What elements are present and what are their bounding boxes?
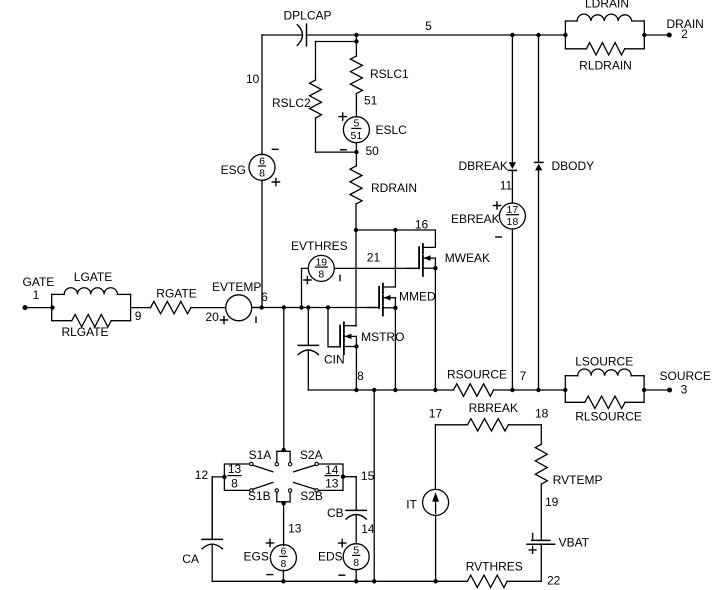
switch S1B outer contact	[250, 489, 253, 492]
wire node 6 horizontal	[252, 307, 379, 309]
source ESG minus	[272, 148, 278, 150]
svg-text:1: 1	[33, 288, 40, 302]
wire RSLC2 top vertical	[315, 42, 317, 81]
resistor RLDRAIN bottom edge segments	[565, 48, 586, 50]
svg-text:S2B: S2B	[300, 489, 323, 503]
wire node 18 vertical	[540, 425, 542, 445]
transistor MMED gate lead	[368, 307, 380, 309]
switch S2A inner contact	[288, 463, 291, 466]
svg-text:RDRAIN: RDRAIN	[371, 181, 417, 195]
svg-text:18: 18	[507, 216, 519, 228]
svg-text:7: 7	[520, 369, 527, 383]
source EGS plus	[266, 539, 273, 546]
source EDS minus	[339, 574, 345, 576]
wire node 50 horizontal	[316, 151, 357, 153]
switch top bracket	[277, 451, 290, 462]
wire node 15 from right switch box	[343, 477, 356, 511]
inductor LSOURCE top edge segments	[565, 375, 577, 377]
svg-text:MMED: MMED	[399, 290, 436, 304]
junction node 7 / DBODY	[536, 388, 540, 392]
wire VBAT to node 22	[540, 544, 542, 581]
source EGS minus	[267, 574, 273, 576]
junction node 6 / EVTHRES	[299, 305, 303, 309]
svg-text:11: 11	[500, 179, 513, 193]
transistor MWEAK gate lead	[406, 267, 419, 269]
svg-text:MWEAK: MWEAK	[445, 251, 490, 265]
switch S1A blade	[253, 465, 273, 472]
wire node 16 horizontal	[356, 229, 435, 231]
current source IT circle	[423, 489, 449, 515]
inductor LSOURCE coils	[578, 369, 632, 376]
wire node 13 vertical to EGS	[283, 502, 285, 545]
transistor MMED source lead	[394, 298, 396, 390]
junction LGATE left	[50, 305, 54, 309]
wire node 14 CB to EDS	[355, 515, 357, 544]
source EVTEMP circle	[226, 295, 252, 321]
wire node 8 horizontal left	[308, 389, 453, 391]
svg-text:2: 2	[681, 27, 688, 41]
wire node 21 to MWEAK gate	[334, 267, 419, 269]
svg-text:GATE: GATE	[23, 275, 55, 289]
wire ESLC to node 50	[355, 143, 357, 152]
junction node 5 / DBREAK branch	[510, 33, 514, 37]
source EGS circle	[270, 545, 296, 571]
svg-text:13: 13	[325, 477, 339, 491]
svg-text:10: 10	[246, 72, 260, 86]
transistor MWEAK drain lead	[423, 230, 436, 247]
svg-text:EBREAK: EBREAK	[451, 212, 500, 226]
source EVTHRES circle	[308, 255, 334, 281]
inductor LDRAIN top edge segments	[565, 20, 577, 22]
svg-text:RSLC2: RSLC2	[272, 96, 311, 110]
wire to DRAIN terminal	[644, 34, 669, 36]
junction LSOURCE right	[642, 388, 646, 392]
battery VBAT plus	[529, 547, 536, 554]
svg-text:LGATE: LGATE	[74, 270, 112, 284]
junction node 6 / switch column	[282, 305, 286, 309]
junction node 7 / EBREAK	[510, 388, 514, 392]
source EVTHRES left lead	[302, 268, 308, 307]
terminal GATE pin 1	[23, 305, 28, 310]
capacitor CIN	[298, 344, 318, 346]
svg-text:LSOURCE: LSOURCE	[575, 354, 633, 368]
transistor MWEAK bulk arrow	[423, 257, 436, 259]
source EVTEMP plus	[220, 316, 227, 323]
resistor RLGATE	[72, 315, 111, 327]
junction node 6 / MSTRO gate	[326, 305, 330, 309]
wire RSLC2 bottom vertical	[315, 118, 317, 152]
wire node 17 horizontal	[435, 424, 467, 426]
inductor LGATE box right edge	[130, 294, 132, 320]
switch S1A outer contact	[250, 462, 253, 465]
wire bottom rail right	[507, 580, 541, 582]
svg-text:RGATE: RGATE	[156, 286, 196, 300]
wire IT bottom lead	[435, 516, 437, 582]
svg-text:EVTHRES: EVTHRES	[291, 239, 348, 253]
source EDS plus	[339, 540, 346, 547]
source EVTEMP rotated minus	[255, 317, 257, 322]
wire to SOURCE terminal	[644, 389, 670, 391]
resistor RSOURCE	[454, 384, 494, 396]
junction RSLC2 top	[354, 39, 358, 43]
inductor LDRAIN coils	[577, 14, 632, 21]
transistor MWEAK source contact	[423, 267, 436, 269]
junction LSOURCE left	[563, 388, 567, 392]
resistor RBREAK	[468, 419, 509, 431]
svg-text:DBODY: DBODY	[552, 159, 595, 173]
wire switch column upper	[283, 308, 285, 452]
resistor RGATE	[151, 301, 191, 313]
resistor RVTEMP	[535, 444, 547, 484]
svg-text:5: 5	[425, 19, 432, 33]
wire node 17 vertical	[434, 425, 436, 489]
wire node 51	[355, 94, 357, 117]
junction IT / bottom rail	[433, 579, 437, 583]
wire node 8 column vertical	[373, 390, 375, 581]
junction node 16 / MSTRO drain	[354, 228, 358, 232]
svg-text:RBREAK: RBREAK	[469, 401, 518, 415]
svg-text:50: 50	[366, 144, 380, 158]
svg-text:SOURCE: SOURCE	[660, 369, 711, 383]
junction node 5 / DBODY branch	[536, 33, 540, 37]
terminal SOURCE pin 3	[667, 388, 672, 393]
capacitor DPLCAP	[297, 25, 302, 46]
svg-text:13: 13	[288, 521, 302, 535]
svg-text:14: 14	[325, 463, 339, 477]
wire node 11	[511, 170, 513, 203]
svg-text:12: 12	[195, 468, 209, 482]
inductor LSOURCE box left edge	[564, 376, 566, 403]
svg-text:EDS: EDS	[318, 550, 343, 564]
transistor MWEAK gate bar	[418, 247, 420, 268]
transistor MSTRO channel segments	[343, 322, 345, 332]
junction node 8 / MSTRO source	[354, 388, 358, 392]
junction source of MWEAK	[433, 266, 437, 270]
svg-text:CA: CA	[182, 552, 199, 566]
junction EGS / bottom rail	[281, 579, 285, 583]
wire EVTEMP to node 6	[252, 307, 262, 309]
junction node 6 / CIN	[306, 305, 310, 309]
svg-text:S2A: S2A	[300, 448, 323, 462]
inductor LGATE coils	[64, 288, 117, 295]
svg-text:16: 16	[415, 218, 429, 232]
switch S2B blade	[294, 483, 316, 490]
switch S1A inner contact	[275, 463, 278, 466]
transistor MMED channel segments	[382, 284, 384, 294]
switch S1B inner contact	[275, 489, 278, 492]
resistor RLGATE bottom edge segments	[52, 320, 72, 322]
svg-text:DPLCAP: DPLCAP	[283, 9, 331, 23]
wire node 5 horizontal	[307, 34, 566, 36]
svg-text:8: 8	[259, 168, 265, 180]
transistor MSTRO gate lead	[328, 308, 340, 347]
wire node 20	[191, 307, 226, 309]
inductor LDRAIN box right edge	[643, 21, 645, 49]
svg-text:51: 51	[351, 130, 363, 142]
transistor MMED bulk arrow	[383, 297, 396, 299]
junction switch bottom bracket	[281, 501, 285, 505]
svg-text:CIN: CIN	[324, 353, 345, 367]
junction EDS / bottom rail	[354, 579, 358, 583]
capacitor CA bottom lead	[211, 544, 213, 581]
junction right switch box	[341, 475, 345, 479]
resistor RSLC1	[350, 56, 362, 94]
svg-text:CB: CB	[327, 506, 344, 520]
svg-text:IT: IT	[406, 497, 417, 511]
source EBREAK plus	[493, 202, 500, 209]
switch S2A blade	[294, 465, 316, 472]
wire node 5 to DBODY	[538, 35, 540, 162]
transistor MSTRO source lead	[355, 336, 357, 390]
resistor RDRAIN	[350, 166, 362, 204]
transistor MWEAK source lead	[434, 258, 436, 390]
svg-text:EGS: EGS	[244, 550, 269, 564]
source ESG circle	[249, 154, 275, 180]
resistor RLSOURCE bottom edge segments	[565, 401, 585, 403]
svg-text:ESG: ESG	[221, 163, 246, 177]
wire node 10 vertical to ESG	[261, 35, 263, 155]
switch S2A outer contact	[315, 462, 318, 465]
svg-text:14: 14	[361, 522, 375, 536]
junction ESG / node 6	[260, 305, 264, 309]
diode DBODY	[535, 161, 543, 163]
wire node 19	[540, 484, 542, 540]
source EDS circle	[343, 544, 369, 570]
transistor MMED drain lead	[383, 230, 396, 287]
wire bottom rail left	[212, 580, 467, 582]
junction LDRAIN left	[563, 33, 567, 37]
junction node 8 / bottom column	[372, 388, 376, 392]
wire DBODY to node 7	[538, 170, 540, 390]
svg-text:RLDRAIN: RLDRAIN	[579, 59, 632, 73]
diode DBREAK	[509, 162, 516, 169]
wire RSLC branch stub	[355, 35, 357, 56]
junction LDRAIN right	[642, 33, 646, 37]
wire node 18 horizontal	[508, 424, 541, 426]
svg-text:8: 8	[318, 269, 324, 281]
source ESG plus	[272, 178, 279, 185]
junction switch top bracket	[281, 448, 285, 452]
switch left bracket	[224, 464, 249, 490]
svg-text:8: 8	[353, 557, 359, 569]
source ESLC circle	[343, 117, 369, 143]
junction node 8 / MWEAK source	[433, 388, 437, 392]
wire node 12 rail	[212, 477, 224, 540]
transistor MMED source contact	[383, 307, 396, 309]
svg-text:S1B: S1B	[248, 489, 271, 503]
wire RSLC2 top horizontal	[316, 41, 357, 43]
svg-text:8: 8	[231, 477, 238, 491]
capacitor CA	[202, 538, 222, 540]
source EVTHRES rotated minus	[339, 275, 341, 280]
terminal DRAIN pin 2	[667, 33, 672, 38]
svg-text:ESLC: ESLC	[376, 123, 408, 137]
capacitor CB	[346, 509, 366, 511]
svg-text:DBREAK: DBREAK	[459, 159, 508, 173]
wire EGS bottom lead	[282, 570, 284, 581]
op-amp source ESLC plus	[339, 113, 346, 120]
svg-text:17: 17	[429, 406, 443, 420]
capacitor CA top lead	[211, 477, 213, 540]
source ESLC minus	[341, 149, 347, 151]
svg-text:9: 9	[135, 309, 142, 323]
svg-text:S1A: S1A	[249, 448, 272, 462]
transistor MSTRO drain lead	[344, 325, 357, 327]
switch S2B inner contact	[288, 489, 291, 492]
svg-text:RSOURCE: RSOURCE	[447, 368, 507, 382]
svg-text:RLSOURCE: RLSOURCE	[575, 410, 642, 424]
wire node 7 horizontal	[494, 389, 566, 391]
switch bottom bracket	[277, 492, 290, 502]
svg-text:21: 21	[367, 251, 381, 265]
source EBREAK minus	[496, 236, 502, 238]
junction node 8 column / bottom rail	[372, 579, 376, 583]
svg-text:51: 51	[364, 94, 378, 108]
resistor RLSOURCE	[585, 396, 625, 408]
transistor MMED gate bar	[378, 287, 380, 308]
junction source of MMED	[393, 306, 397, 310]
source EBREAK circle	[499, 203, 525, 229]
capacitor CIN bottom lead	[307, 350, 309, 390]
svg-text:RVTEMP: RVTEMP	[553, 473, 603, 487]
resistor RLDRAIN	[586, 43, 624, 55]
transistor MSTRO bulk arrow	[344, 335, 357, 337]
resistor RSLC2	[310, 80, 322, 118]
junction node 16 / MMED drain	[393, 228, 397, 232]
inductor LDRAIN box left edge	[564, 21, 566, 49]
transistor MSTRO source contact	[344, 346, 357, 348]
wire node 50 to RDRAIN	[355, 152, 357, 166]
wire MSTRO drain vertical	[355, 230, 357, 326]
inductor LGATE box left edge	[51, 294, 53, 320]
svg-text:EVTEMP: EVTEMP	[212, 280, 261, 294]
junction source of MSTRO	[354, 344, 358, 348]
current source IT arrow	[435, 501, 437, 513]
wire EBREAK to node 7	[511, 229, 513, 390]
wire node 10 horizontal to DPLCAP	[262, 34, 302, 36]
wire ESG to node 6	[261, 180, 263, 307]
battery VBAT plates	[532, 539, 550, 541]
svg-text:RSLC1: RSLC1	[370, 67, 409, 81]
transistor MSTRO gate bar	[339, 326, 341, 347]
svg-text:3: 3	[681, 383, 688, 397]
svg-text:22: 22	[547, 574, 561, 588]
inductor LSOURCE box right edge	[643, 376, 645, 403]
wire node 9	[131, 307, 151, 309]
svg-text:20: 20	[205, 310, 219, 324]
svg-text:RLGATE: RLGATE	[61, 325, 108, 339]
svg-text:LDRAIN: LDRAIN	[585, 0, 629, 11]
capacitor CIN top lead	[307, 308, 309, 346]
svg-text:8: 8	[357, 369, 364, 383]
svg-text:RVTHRES: RVTHRES	[466, 560, 523, 574]
svg-text:19: 19	[545, 495, 559, 509]
battery VBAT rotated minus	[532, 534, 534, 539]
switch S1B blade	[253, 483, 273, 490]
switch S2B outer contact	[315, 489, 318, 492]
wire EDS bottom lead	[355, 570, 357, 582]
inductor LGATE top edge segments	[52, 293, 64, 295]
wire GATE to LGATE box	[25, 307, 52, 309]
wire RDRAIN to node 16	[355, 204, 357, 230]
junction node 5 / RSLC1	[354, 33, 358, 37]
svg-text:13: 13	[228, 462, 242, 476]
switch right bracket	[318, 464, 343, 490]
svg-text:18: 18	[535, 407, 549, 421]
svg-text:VBAT: VBAT	[559, 535, 590, 549]
junction left switch box	[222, 475, 226, 479]
wire node 5 to DBREAK	[511, 35, 513, 162]
junction node 50	[354, 150, 358, 154]
svg-text:15: 15	[361, 469, 375, 483]
junction node 8 / MMED source	[393, 388, 397, 392]
source EVTHRES plus	[304, 276, 311, 283]
transistor MWEAK channel segments	[422, 244, 424, 254]
resistor RVTHRES	[467, 575, 507, 587]
svg-text:MSTRO: MSTRO	[361, 330, 404, 344]
svg-text:8: 8	[280, 558, 286, 570]
